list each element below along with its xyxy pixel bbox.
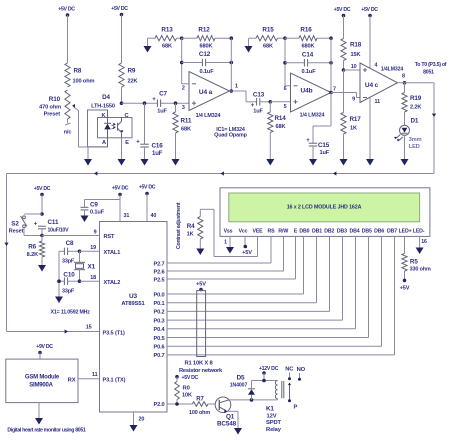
svg-text:DB0: DB0	[299, 229, 309, 235]
label X1= 11.0592 MHz	[51, 310, 91, 316]
svg-text:GSM Module: GSM Module	[25, 375, 60, 381]
svg-text:AT89S51: AT89S51	[121, 301, 145, 307]
svg-text:100 ohm: 100 ohm	[189, 410, 210, 416]
wire: long return bus to P3.5	[4, 171, 434, 333]
svg-text:9: 9	[352, 97, 355, 103]
svg-text:Preset: Preset	[44, 112, 61, 118]
op-amp U4a	[182, 72, 238, 120]
wire: GSM RX to P3.1	[78, 372, 100, 379]
svg-text:C16: C16	[152, 143, 164, 150]
resistor network R1 10K x 8	[179, 282, 223, 375]
svg-text:R14: R14	[275, 115, 287, 122]
svg-text:U4 c: U4 c	[365, 82, 379, 89]
resistor R13 68K	[155, 27, 177, 50]
svg-text:11: 11	[375, 99, 381, 105]
svg-text:1K: 1K	[187, 232, 194, 238]
svg-text:Q1: Q1	[226, 414, 235, 421]
svg-text:0.1uF: 0.1uF	[90, 210, 105, 216]
svg-text:S2: S2	[11, 221, 19, 228]
ground (crystal)	[55, 294, 63, 303]
svg-text:R18: R18	[350, 42, 362, 49]
svg-text:7: 7	[333, 87, 336, 93]
svg-text:4: 4	[375, 63, 378, 69]
svg-text:C13: C13	[253, 92, 265, 99]
label To T0 (P3.5) of 8051	[415, 62, 447, 76]
LED D1 3mm	[394, 118, 422, 160]
svg-text:U4b: U4b	[301, 88, 313, 95]
resistor R11 68K	[173, 101, 192, 133]
svg-text:U3: U3	[129, 293, 138, 300]
svg-text:LED+: LED+	[399, 229, 412, 235]
svg-text:R19: R19	[410, 95, 422, 102]
svg-text:+5V DC: +5V DC	[58, 7, 75, 13]
svg-text:P3.5 (T1): P3.5 (T1)	[103, 330, 125, 336]
svg-text:C: C	[125, 113, 129, 119]
ground (Q1)	[234, 426, 242, 435]
wire: P2.6 to LCD R/W	[167, 236, 284, 271]
relay K1 12V SPDT	[266, 381, 284, 434]
svg-text:33pF: 33pF	[62, 289, 75, 295]
svg-text:C7: C7	[159, 91, 167, 98]
transistor Q1 BC548	[215, 397, 236, 428]
svg-text:R/W: R/W	[278, 229, 288, 235]
svg-text:LED-: LED-	[413, 229, 425, 235]
wire: Q1 collector rail	[229, 398, 278, 402]
svg-text:C8: C8	[66, 240, 74, 247]
ground (R15)	[245, 38, 257, 52]
ground (GSM)	[35, 403, 43, 425]
svg-text:RST: RST	[104, 234, 116, 240]
resistor R17 1K	[341, 70, 361, 134]
power +5V DC node (LM324 pin4)	[361, 7, 378, 69]
power +5V DC node (R8 supply)	[58, 7, 75, 64]
svg-text:100 ohm: 100 ohm	[73, 79, 95, 85]
svg-text:E: E	[125, 140, 129, 146]
ground (D1)	[401, 156, 409, 166]
svg-text:+5V: +5V	[242, 250, 252, 256]
power +5V DC node (pin 31)	[112, 186, 130, 222]
svg-text:1/4 LM324: 1/4 LM324	[300, 113, 325, 119]
svg-text:NO: NO	[297, 367, 306, 373]
node: opto collector / signal	[120, 101, 124, 105]
svg-text:1: 1	[224, 240, 227, 246]
svg-text:P0.6: P0.6	[153, 345, 164, 351]
svg-text:C15: C15	[318, 142, 330, 149]
ground (C15)	[309, 146, 317, 166]
svg-text:R10: R10	[49, 96, 61, 103]
power +5V DC node (R18 supply)	[334, 7, 351, 39]
wire: crystal caps to ground	[57, 251, 61, 295]
capacitor C9 0.1uF	[81, 200, 121, 216]
capacitor C7 1uF	[152, 91, 167, 115]
svg-text:330 ohm: 330 ohm	[410, 267, 431, 273]
svg-text:X1: X1	[88, 264, 96, 271]
power +5V DC node (R9 supply)	[111, 6, 128, 63]
capacitor C12 0.1uF	[182, 51, 232, 75]
label IC1= LM324 Quad Opamp	[214, 127, 247, 139]
svg-text:+5V DC: +5V DC	[112, 186, 129, 192]
resistor R12 680K	[182, 27, 232, 50]
svg-text:SIM900A: SIM900A	[29, 383, 53, 389]
ground (pin 20)	[130, 424, 138, 432]
wire: P2.5 to LCD E	[167, 236, 296, 279]
svg-text:R15: R15	[262, 27, 274, 34]
svg-text:R11: R11	[181, 118, 192, 125]
diode D5 1N4007	[230, 375, 255, 400]
resistor R6 8.2K	[27, 236, 45, 259]
svg-text:+5V: +5V	[400, 286, 410, 292]
svg-text:1: 1	[235, 84, 238, 90]
wire: Q1 emitter to ground	[227, 411, 238, 427]
wire: P0.0 to LCD DB0	[167, 236, 304, 294]
svg-text:Quad Opamp: Quad Opamp	[214, 133, 247, 139]
svg-text:15K: 15K	[351, 52, 361, 58]
svg-text:D1: D1	[411, 118, 419, 125]
svg-text:1uF: 1uF	[320, 150, 330, 156]
svg-text:22K: 22K	[128, 79, 138, 85]
svg-text:C9: C9	[90, 202, 98, 209]
svg-text:P0.3: P0.3	[153, 318, 164, 324]
svg-text:R6: R6	[28, 244, 36, 251]
svg-text:Resistor network: Resistor network	[179, 368, 223, 374]
svg-text:16: 16	[421, 239, 427, 245]
capacitor C13 1uF	[246, 91, 272, 115]
svg-text:P2.7: P2.7	[153, 261, 164, 267]
optocoupler D4 LTH-1550	[88, 94, 133, 147]
svg-text:R13: R13	[161, 27, 173, 34]
svg-text:LED: LED	[409, 144, 420, 150]
ground (Vss)	[226, 245, 234, 254]
svg-text:1/4LM324: 1/4LM324	[381, 67, 404, 73]
svg-text:To T0 (P3.5) of: To T0 (P3.5) of	[415, 62, 447, 68]
microcontroller U3 AT89S51	[100, 222, 168, 413]
svg-text:R7: R7	[196, 397, 204, 403]
svg-text:R9: R9	[128, 68, 136, 75]
svg-text:68K: 68K	[276, 124, 286, 130]
power +9V DC node	[36, 344, 53, 359]
svg-text:0.1uF: 0.1uF	[301, 69, 316, 75]
resistor R8 100 ohm	[65, 63, 95, 87]
svg-text:1K: 1K	[350, 126, 357, 132]
power +5V DC node (reset)	[34, 186, 51, 214]
ground (wiper/A)	[84, 147, 92, 166]
node XTAL2	[78, 275, 100, 283]
capacitor C10 33pF	[59, 272, 80, 295]
wire: Vss to ground	[229, 236, 231, 246]
svg-text:680K: 680K	[302, 44, 315, 50]
svg-text:+9V DC: +9V DC	[36, 344, 53, 350]
svg-text:D4: D4	[102, 94, 110, 101]
svg-text:C14: C14	[302, 52, 314, 59]
svg-text:D5: D5	[237, 375, 245, 382]
svg-text:P0.0: P0.0	[153, 292, 164, 298]
svg-text:9: 9	[94, 230, 97, 236]
svg-text:11: 11	[92, 372, 98, 378]
pin 20 ground wire	[134, 412, 145, 424]
svg-text:C12: C12	[199, 51, 211, 58]
wire: P0.4 to LCD DB4	[167, 236, 356, 328]
wire: U4b non-inverting input	[270, 101, 290, 103]
svg-text:68K: 68K	[263, 44, 273, 50]
svg-text:2: 2	[182, 86, 185, 92]
wire: VEE to contrast pot	[200, 209, 257, 256]
switch S2 Reset	[9, 212, 44, 235]
svg-text:16 x 2 LCD MODULE JHD 162A: 16 x 2 LCD MODULE JHD 162A	[287, 205, 362, 211]
wire: LED- to ground	[419, 236, 421, 246]
svg-text:P2.6: P2.6	[153, 269, 164, 275]
ground (opto E)	[118, 138, 126, 166]
resistor R5 330 ohm	[400, 236, 431, 291]
svg-text:+5V DC: +5V DC	[111, 6, 128, 12]
wire: U4b inverting input	[285, 85, 291, 87]
svg-text:8: 8	[402, 73, 405, 79]
svg-text:31: 31	[124, 213, 130, 219]
ground (R11)	[172, 133, 180, 166]
svg-text:XTAL1: XTAL1	[104, 250, 121, 256]
svg-text:40: 40	[151, 213, 157, 219]
wire: U4a inverting input	[182, 83, 189, 85]
wire: U4c output down to bus	[432, 83, 436, 174]
wire: P2.7 to LCD RS	[167, 236, 271, 263]
svg-text:R8: R8	[74, 68, 82, 75]
svg-text:12V: 12V	[267, 414, 277, 420]
wire: relay coil top rail	[252, 379, 278, 383]
svg-text:10: 10	[351, 64, 357, 70]
svg-text:C10: C10	[63, 272, 75, 279]
svg-text:R5: R5	[410, 259, 418, 266]
power +5V DC node (R0)	[175, 375, 198, 381]
svg-text:RX: RX	[68, 378, 76, 384]
ground (R17)	[340, 134, 348, 166]
svg-text:+5V DC: +5V DC	[34, 186, 51, 192]
capacitor C14 0.1uF	[285, 52, 331, 76]
op-amp U4c	[360, 63, 405, 103]
resistor R9 22K	[119, 63, 138, 103]
svg-text:1uF: 1uF	[157, 109, 167, 115]
svg-text:P3.1 (TX): P3.1 (TX)	[103, 378, 126, 384]
wire: P0.1 to LCD DB1	[167, 236, 317, 302]
svg-text:XTAL2: XTAL2	[104, 280, 121, 286]
wire: P0.2 to LCD DB2	[167, 236, 330, 311]
wire: signal rail	[122, 102, 190, 104]
svg-text:+5V: +5V	[196, 282, 206, 288]
svg-text:RS: RS	[268, 229, 276, 235]
ground (C9)	[81, 212, 89, 223]
svg-text:DB4: DB4	[349, 229, 359, 235]
svg-text:2.2K: 2.2K	[410, 105, 421, 111]
capacitor C15 1uF	[306, 93, 331, 157]
wire: P0.6 to LCD DB6	[167, 236, 382, 346]
svg-text:10uF/10V: 10uF/10V	[48, 228, 70, 234]
svg-text:5: 5	[284, 104, 287, 110]
ground (R13)	[144, 38, 156, 52]
svg-text:P0.1: P0.1	[153, 301, 164, 307]
resistor R14 68K	[268, 102, 287, 133]
node: U4b output net	[329, 36, 333, 94]
wire: U4b output to U4c pin 9	[331, 93, 360, 103]
svg-text:VEE: VEE	[252, 229, 263, 235]
svg-text:P0.4: P0.4	[153, 327, 165, 333]
resistor R16 680K	[285, 27, 331, 50]
capacitor C16 1uF	[136, 101, 163, 157]
node: U4a output net	[230, 36, 247, 92]
svg-text:SPDT: SPDT	[266, 420, 282, 426]
svg-text:20: 20	[139, 417, 145, 423]
svg-text:33pF: 33pF	[62, 259, 75, 265]
R10 wiper arrow	[72, 104, 79, 111]
svg-text:10K: 10K	[182, 393, 192, 399]
svg-text:LTH-1550: LTH-1550	[91, 104, 115, 110]
svg-text:68K: 68K	[162, 44, 172, 50]
svg-text:+5V DC: +5V DC	[361, 7, 378, 13]
svg-text:R17: R17	[350, 116, 362, 123]
preset R10 470 ohm	[39, 90, 71, 136]
ground (pin 11)	[366, 155, 374, 166]
resistor R0 10K	[175, 377, 192, 404]
svg-text:1/4 LM324: 1/4 LM324	[196, 113, 221, 119]
ground (R6)	[38, 257, 46, 272]
svg-text:P2.0: P2.0	[153, 402, 164, 408]
ground (R14)	[266, 133, 274, 166]
svg-text:680K: 680K	[200, 44, 213, 50]
svg-text:DB3: DB3	[337, 229, 347, 235]
svg-text:6: 6	[284, 86, 287, 92]
crystal X1	[74, 251, 96, 281]
resistor R7 100 ohm	[189, 397, 215, 417]
power +12V DC node	[259, 366, 279, 381]
svg-text:Digital heart rate monitor usi: Digital heart rate monitor using 8051	[7, 428, 86, 434]
node: U4a pin2 net	[177, 36, 184, 83]
wire: U4c pin 11 to ground	[370, 98, 380, 160]
svg-text:P2.5: P2.5	[153, 277, 164, 283]
node: U4c output	[398, 81, 435, 85]
svg-text:Vss: Vss	[224, 229, 233, 235]
capacitor C8 33pF	[59, 240, 80, 265]
svg-text:+5V DC: +5V DC	[334, 7, 351, 13]
svg-text:P: P	[294, 405, 298, 411]
svg-text:n/c: n/c	[64, 130, 72, 136]
svg-text:68K: 68K	[181, 127, 191, 133]
GSM module SIM900A	[6, 359, 78, 403]
svg-text:0.1uF: 0.1uF	[199, 69, 214, 75]
svg-text:DB6: DB6	[374, 229, 384, 235]
node: U4c pin10 threshold	[342, 64, 360, 72]
svg-text:R16: R16	[300, 27, 312, 34]
LCD module 16x2 JHD 162A	[220, 188, 430, 246]
svg-text:NC: NC	[285, 367, 294, 373]
svg-text:3mm: 3mm	[409, 137, 422, 143]
svg-text:R1 10K X 8: R1 10K X 8	[185, 361, 214, 367]
power +5V DC node (pin 40)	[139, 185, 157, 222]
caption	[7, 428, 86, 434]
svg-text:P0.7: P0.7	[153, 353, 164, 359]
wire: P2.0 net	[167, 402, 192, 406]
op-amp U4b	[284, 73, 336, 119]
svg-text:+5V DC: +5V DC	[182, 375, 199, 381]
relay contacts NC/NO/P	[285, 367, 305, 411]
svg-text:Reset: Reset	[9, 229, 24, 235]
ground (R4)	[196, 239, 204, 255]
resistor R15 68K	[256, 27, 278, 50]
svg-text:A: A	[102, 140, 106, 146]
svg-text:1uF: 1uF	[152, 151, 163, 157]
svg-text:BC548: BC548	[217, 421, 237, 428]
svg-text:+5V DC: +5V DC	[139, 185, 156, 191]
wire: P0.5 to LCD DB5	[167, 236, 369, 337]
svg-text:U4 a: U4 a	[199, 89, 213, 96]
ground (C16)	[141, 147, 149, 166]
svg-text:DB7: DB7	[387, 229, 397, 235]
svg-text:18: 18	[90, 275, 96, 281]
preset R4 1K contrast	[187, 209, 203, 239]
svg-text:P0.2: P0.2	[153, 310, 164, 316]
svg-text:R4: R4	[187, 223, 195, 230]
svg-text:DB2: DB2	[324, 229, 334, 235]
wire: P0.7 to LCD DB7	[167, 236, 395, 355]
resistor R19 2.2K	[402, 83, 422, 126]
wire: RST net	[40, 230, 99, 238]
svg-text:15: 15	[86, 325, 92, 331]
svg-text:R12: R12	[198, 27, 210, 34]
label Contrast adjustment	[176, 202, 182, 249]
svg-text:P0.5: P0.5	[153, 336, 164, 342]
svg-text:+12V DC: +12V DC	[259, 366, 279, 372]
svg-text:8051: 8051	[423, 70, 434, 76]
svg-text:1N4007: 1N4007	[230, 383, 248, 389]
node: U4b pin6 net	[278, 36, 287, 85]
svg-text:Vcc: Vcc	[239, 229, 248, 235]
node Vcc +5V	[242, 236, 252, 256]
wire: wiper to opto LED anode	[79, 111, 108, 148]
wire: P0.3 to LCD DB3	[167, 236, 343, 320]
svg-text:Relay: Relay	[266, 427, 282, 433]
node XTAL1	[78, 245, 100, 253]
svg-text:DB1: DB1	[312, 229, 322, 235]
resistor R18 15K	[341, 39, 362, 71]
svg-text:R0: R0	[183, 386, 190, 392]
svg-text:Contrast adjustment: Contrast adjustment	[176, 202, 182, 249]
svg-text:DB5: DB5	[362, 229, 372, 235]
svg-text:8.2K: 8.2K	[27, 252, 38, 258]
svg-text:470 ohm: 470 ohm	[39, 105, 61, 111]
svg-text:C11: C11	[48, 219, 59, 226]
svg-text:K: K	[102, 113, 106, 119]
svg-text:3: 3	[182, 105, 185, 111]
capacitor C11 10uF/10V	[34, 219, 69, 236]
svg-text:K1: K1	[266, 406, 274, 413]
ground (LED-)	[416, 246, 424, 254]
svg-text:1uF: 1uF	[253, 109, 263, 115]
svg-text:X1= 11.0592 MHz: X1= 11.0592 MHz	[51, 310, 91, 316]
svg-text:19: 19	[90, 245, 96, 251]
